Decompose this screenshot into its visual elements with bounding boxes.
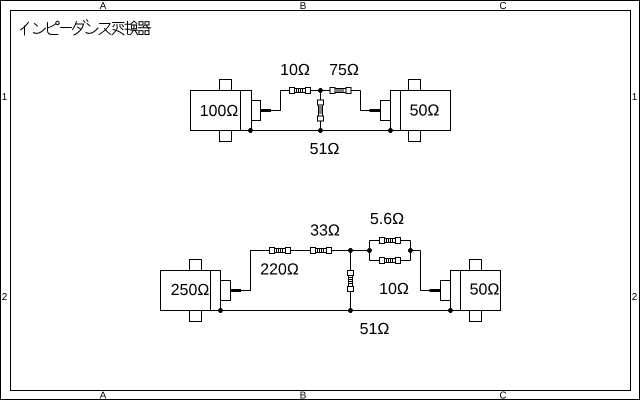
wire — [323, 90, 331, 92]
frame column label B top — [301, 2, 306, 9]
node junction parallel-right — [408, 248, 413, 253]
wire — [370, 240, 380, 242]
junction at J3 ground — [218, 308, 223, 313]
resistor R3 51Ω (shunt) — [318, 100, 324, 121]
value label 10Ω for R8 — [380, 283, 408, 294]
wire — [250, 250, 252, 291]
parallel branch left riser — [369, 241, 371, 261]
resistor R7 5.6Ω (parallel lower) — [380, 258, 401, 264]
wire — [421, 290, 431, 292]
wire — [320, 93, 322, 100]
J3 center-pin stub — [231, 289, 242, 292]
wire — [401, 240, 411, 242]
resistor R2 75Ω — [330, 88, 351, 94]
wire — [353, 250, 370, 252]
junction at J4 ground — [448, 308, 453, 313]
wire — [280, 90, 282, 111]
frame row label 1 left — [3, 93, 7, 100]
junction at R8 bottom — [348, 308, 353, 313]
wire — [350, 292, 352, 311]
J1 center-pin stub — [261, 109, 272, 112]
connector J2 50Ω body — [381, 80, 451, 142]
value label 51Ω for bottom rail — [360, 323, 388, 334]
connector J1 100Ω body — [191, 80, 261, 142]
resistor R1 10Ω — [290, 88, 311, 94]
junction at J2 ground — [388, 128, 393, 133]
wire — [281, 90, 290, 92]
value label 75Ω for R2 — [330, 64, 358, 75]
frame column label C bottom — [500, 392, 506, 399]
frame column label A top — [100, 2, 107, 9]
value label 5.6Ω for parallel pair — [371, 213, 404, 224]
wire — [251, 250, 270, 252]
frame row label 1 right — [633, 93, 637, 100]
value label 33Ω for R5 — [311, 224, 340, 235]
wire — [291, 250, 311, 252]
resistor R5 33Ω — [311, 248, 332, 254]
J4 center-pin stub — [430, 289, 441, 292]
wire — [221, 310, 451, 312]
wire — [370, 260, 380, 262]
wire — [420, 251, 422, 291]
parallel branch right riser — [410, 241, 412, 261]
node junction (R1/R2/R3) — [318, 88, 323, 93]
resistor R4 220Ω — [270, 248, 291, 254]
wire — [271, 110, 281, 112]
frame row label 2 right — [632, 293, 637, 300]
connector J4 50Ω body — [441, 260, 501, 322]
node junction parallel-left — [367, 248, 372, 253]
node junction (R5/R8 shunt) — [348, 248, 353, 253]
connector J3 250Ω body — [161, 260, 231, 322]
wire — [241, 290, 251, 292]
value label 220Ω for R4 — [261, 263, 298, 274]
frame column label B bottom — [301, 392, 306, 399]
wire — [251, 130, 391, 132]
wire — [401, 260, 411, 262]
value label 10Ω for R1 — [281, 64, 309, 75]
wire — [332, 250, 349, 252]
frame column label A bottom — [100, 392, 107, 399]
wire — [351, 90, 361, 92]
title text インピーダンス変換器 (hand-drawn glyph strokes) — [21, 20, 151, 36]
label 250Ω inside J3 — [172, 284, 209, 295]
wire — [361, 110, 371, 112]
wire — [413, 250, 421, 252]
wire — [350, 253, 352, 271]
J2 center-pin stub — [370, 109, 381, 112]
wire — [320, 121, 322, 131]
wire — [360, 91, 362, 111]
value label 51Ω for R3 — [310, 143, 338, 154]
resistor R6 5.6Ω (parallel upper) — [380, 238, 401, 244]
resistor R8 10Ω (shunt) — [348, 271, 354, 292]
junction at J1 ground — [248, 128, 253, 133]
frame column label C top — [500, 2, 506, 9]
label 100Ω inside J1 — [201, 105, 238, 116]
wire — [311, 90, 319, 92]
frame row label 2 left — [2, 293, 7, 300]
junction at R3 bottom — [318, 128, 323, 133]
label 50Ω inside J2 — [410, 104, 438, 115]
label 50Ω inside J4 — [470, 283, 498, 294]
